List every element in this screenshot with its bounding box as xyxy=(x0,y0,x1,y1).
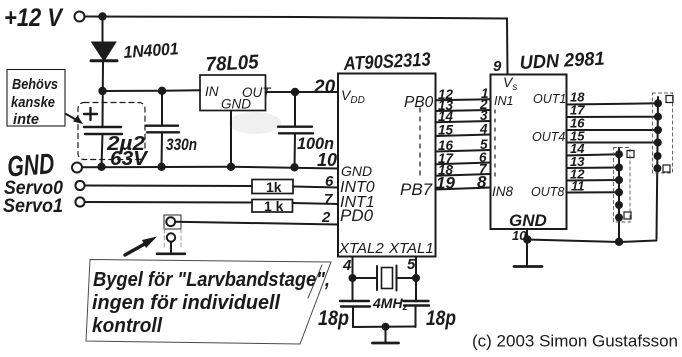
arrow to jumper xyxy=(125,241,150,255)
ground symbol jumper xyxy=(157,253,185,256)
svg-text:GND: GND xyxy=(341,163,372,179)
wire Servo1 to R2 xyxy=(85,201,252,204)
svg-text:inte: inte xyxy=(13,111,39,128)
capacitor C1 2u2/63V polarity plus xyxy=(84,108,97,120)
junction 330n top xyxy=(158,87,166,95)
connector J2 (left strip) xyxy=(618,148,620,242)
svg-text:XTAL1: XTAL1 xyxy=(388,240,434,257)
junction XTAL1 xyxy=(412,274,420,282)
junction C1 gnd xyxy=(97,163,105,171)
wire XTAL2 pin xyxy=(352,257,354,278)
connector J1 (right strip) xyxy=(657,97,659,239)
svg-text:2: 2 xyxy=(321,209,331,226)
wire pin17 to pin6 xyxy=(436,163,491,165)
ground symbol crystal xyxy=(385,327,387,342)
capacitor C5 18p (right) xyxy=(415,278,417,301)
svg-text:OUT8: OUT8 xyxy=(531,185,564,199)
arrow from note to C1 xyxy=(66,114,80,122)
wire XTAL1 pin xyxy=(415,257,417,278)
svg-text:1N4001: 1N4001 xyxy=(123,39,179,62)
svg-text:UDN 2981: UDN 2981 xyxy=(519,49,605,74)
junction C3 gnd xyxy=(290,163,298,171)
svg-text:4: 4 xyxy=(479,122,488,137)
svg-text:1 k: 1 k xyxy=(264,198,284,214)
junction U3 gnd xyxy=(523,235,531,243)
svg-text:PB0: PB0 xyxy=(404,94,434,111)
svg-text:11: 11 xyxy=(571,179,585,194)
wire OUT pin16 xyxy=(567,129,659,131)
wire OUT pin18 xyxy=(567,103,659,104)
diode D1 1N4001 xyxy=(93,43,116,61)
svg-text:kontroll: kontroll xyxy=(92,314,163,337)
ground symbol U3 xyxy=(514,265,542,268)
svg-text:4MHz: 4MHz xyxy=(372,295,408,313)
jumper JP1 bottom pin xyxy=(167,233,175,241)
svg-text:Servo1: Servo1 xyxy=(3,196,63,217)
wire unregulated rail to regulator IN xyxy=(103,89,201,92)
wire R2 to INT1 pin 7 xyxy=(293,203,339,204)
junction 100n top xyxy=(291,88,299,96)
jumper JP1 box xyxy=(164,215,181,229)
scan smudge (decorative, near regulator) xyxy=(229,112,281,134)
wire PB0 pin12 to IN1 pin1 xyxy=(436,99,491,100)
wire C1 to gnd rail xyxy=(102,134,103,167)
wire pin16 to pin5 xyxy=(436,150,491,152)
svg-text:18p: 18p xyxy=(426,307,456,330)
wire jumper to ground xyxy=(170,242,172,253)
svg-text:19: 19 xyxy=(436,174,455,193)
svg-text:6: 6 xyxy=(325,173,334,190)
wire OUT pin13 xyxy=(567,167,620,170)
wire crystal gnd rail xyxy=(353,326,416,329)
wire regulator OUT to VDD pin xyxy=(266,91,339,93)
wire pin14 to pin3 xyxy=(436,121,491,122)
pin numbers 18-11 xyxy=(570,90,585,194)
svg-text:GND: GND xyxy=(221,97,251,112)
wire OUT pin17 xyxy=(567,116,659,118)
regulator U2 78L05 xyxy=(200,75,266,111)
wire pin15 to pin4 xyxy=(436,135,491,137)
svg-text:330n: 330n xyxy=(166,135,197,154)
wire R1 to INT0 pin 6 xyxy=(293,187,338,188)
wire jumper to PD0 pin 2 xyxy=(175,222,338,225)
svg-text:PD0: PD0 xyxy=(340,206,374,225)
dashed pin continuation U3 xyxy=(494,110,496,182)
wire OUT pin15 xyxy=(567,142,659,144)
svg-text:(c) 2003 Simon Gustafsson: (c) 2003 Simon Gustafsson xyxy=(472,332,678,351)
wire pin18 to pin7 xyxy=(436,174,491,176)
capacitor C2 330n xyxy=(161,91,163,125)
junction +12V/diode xyxy=(98,12,106,20)
junction connector J2 gnd xyxy=(615,238,623,246)
svg-text:IN: IN xyxy=(205,84,219,99)
wire diode cathode to +5 node xyxy=(102,61,105,127)
jumper JP1 top pin xyxy=(166,217,175,226)
dashed pin continuation U1 xyxy=(419,108,421,180)
node Servo1 terminal xyxy=(75,197,84,206)
wire gnd rail xyxy=(82,167,338,169)
junction crystal gnd xyxy=(382,323,390,331)
svg-text:9: 9 xyxy=(493,58,502,75)
capacitor C1 plates xyxy=(84,126,121,128)
wire OUT pin12 xyxy=(567,179,620,182)
pin numbers 12-19 xyxy=(436,87,455,193)
node GND terminal xyxy=(72,163,82,173)
resistor R1 1k xyxy=(252,180,293,194)
IC U1 AT90S2313 box xyxy=(338,74,436,257)
svg-text:+12 V: +12 V xyxy=(4,4,64,32)
capacitor C3 100n xyxy=(294,92,296,126)
wire PB7 pin19 to IN8 pin8 xyxy=(436,188,491,190)
svg-text:ingen för individuell: ingen för individuell xyxy=(92,291,281,314)
svg-text:5: 5 xyxy=(407,256,416,273)
note box Behovs kanske inte xyxy=(7,70,65,127)
crystal Y1 xyxy=(356,277,377,279)
svg-text:OUT4: OUT4 xyxy=(532,130,565,144)
svg-text:IN1: IN1 xyxy=(494,94,513,108)
wire Servo0 to R1 xyxy=(85,185,252,188)
wire OUT pin11 xyxy=(567,191,620,193)
svg-text:kanske: kanske xyxy=(11,94,55,111)
wire pin13 to pin2 xyxy=(436,110,491,111)
svg-text:Bygel för "Larvbandstage",: Bygel för "Larvbandstage", xyxy=(93,268,330,291)
svg-text:18p: 18p xyxy=(318,307,349,330)
svg-text:10: 10 xyxy=(317,150,337,170)
svg-text:PB7: PB7 xyxy=(400,180,433,199)
svg-text:4: 4 xyxy=(342,257,352,274)
node Servo0 terminal xyxy=(75,181,84,190)
IC U3 UDN2981 box xyxy=(491,75,567,230)
note box Bygel (parallelogram) xyxy=(86,260,331,345)
svg-text:20: 20 xyxy=(313,77,336,98)
svg-text:15: 15 xyxy=(438,123,454,138)
node +12V terminal xyxy=(75,12,85,22)
svg-text:IN8: IN8 xyxy=(492,184,514,199)
junction XTAL2 xyxy=(349,274,357,282)
wire regulator GND pin xyxy=(230,111,232,167)
svg-text:Behövs: Behövs xyxy=(12,76,58,93)
svg-text:OUT1: OUT1 xyxy=(533,92,566,106)
wire diode anode xyxy=(102,17,104,44)
junction C2 gnd xyxy=(157,163,165,171)
wire U3 GND pin to ground xyxy=(526,229,528,265)
junction 78L05 gnd xyxy=(227,163,235,171)
svg-text:1k: 1k xyxy=(266,179,282,195)
dashed box around C1 xyxy=(78,103,145,160)
svg-text:XTAL2: XTAL2 xyxy=(338,240,384,257)
svg-text:7: 7 xyxy=(324,191,333,208)
wire +12V top rail to Vs xyxy=(85,17,508,75)
resistor R2 1k xyxy=(252,200,293,213)
pin numbers 1-8 xyxy=(477,86,489,192)
wire OUT pin14 xyxy=(567,154,620,155)
svg-text:78L05: 78L05 xyxy=(205,51,260,76)
capacitor C4 18p (left) xyxy=(352,278,354,301)
junction unregulated rail xyxy=(98,87,106,95)
svg-text:8: 8 xyxy=(477,173,487,192)
wire gnd to connectors xyxy=(527,240,656,243)
